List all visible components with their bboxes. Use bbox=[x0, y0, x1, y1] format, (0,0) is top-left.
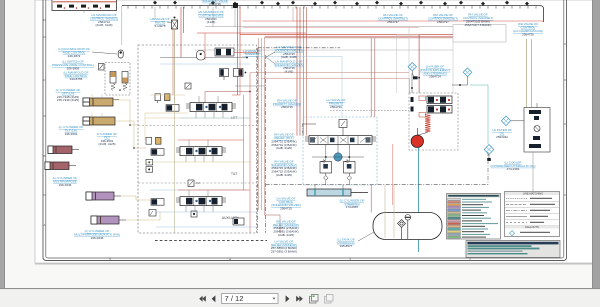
pilot red horizontal y27.5 bbox=[243, 27, 419, 29]
label: cylinder multipurpose bottom bbox=[74, 229, 120, 240]
ride control pressure switch bbox=[99, 64, 105, 71]
legend row text bars bbox=[462, 199, 498, 238]
toolbar prev-page button bbox=[212, 295, 216, 302]
steering check valve left bbox=[320, 160, 332, 181]
label: cylinder multipurpose left bbox=[53, 176, 78, 187]
lift cylinder (RH) bbox=[83, 117, 115, 125]
page bottom shadow bbox=[35, 263, 593, 265]
label: HS manifold of custom valves bbox=[198, 10, 224, 24]
label: manifold of ride control bbox=[63, 70, 88, 81]
return line maroon horizontal y37.4 bbox=[264, 37, 506, 39]
steering piston pump bbox=[427, 106, 452, 114]
label: accumulator of ride control bbox=[58, 47, 90, 58]
signal line gray horizontal y26.6 bbox=[205, 26, 506, 28]
red riser pair x195 bbox=[181, 7, 183, 58]
tilt pilot valve bbox=[151, 149, 164, 156]
pressure red horizontal y36.2 bbox=[265, 35, 506, 37]
maroon feeder y72.5 bbox=[250, 72, 409, 74]
label: right column cluster 2 (solenoid valves) bbox=[271, 159, 297, 177]
label: valve of relief line bottom bbox=[271, 239, 297, 253]
maroon link to relief labels bbox=[264, 215, 280, 233]
label: cylinder of tilt mid bbox=[97, 132, 117, 146]
pump supply red riser x419 bbox=[418, 35, 420, 93]
pump box red inner accents bbox=[419, 96, 426, 117]
pilot supply light blue to steering bbox=[242, 57, 342, 118]
pump wires to diamonds bbox=[411, 73, 467, 93]
steering spool valve bbox=[305, 136, 376, 145]
toolbar next-page button bbox=[286, 295, 290, 302]
wire olive from route valve down bbox=[174, 29, 176, 103]
aux pressure reducing valve bbox=[188, 180, 200, 187]
zone tick right rows bbox=[564, 44, 567, 195]
toolbar field dropdown caret bbox=[273, 298, 276, 300]
solenoid valve on bus bbox=[233, 3, 238, 8]
callout reference box (top right) bbox=[453, 25, 506, 43]
gray grouping outline to pump bbox=[397, 27, 454, 93]
hydraulic tank bbox=[373, 213, 442, 240]
cylinder port ticks bbox=[92, 94, 102, 117]
toolbar next-view icon (disabled) bbox=[325, 295, 334, 304]
zone tick left C bbox=[43, 36, 46, 38]
implement return red line y78.6 bbox=[261, 79, 409, 93]
ride control manifold dashed box bbox=[105, 63, 130, 96]
label: HS valve of route bbox=[150, 17, 169, 28]
right gray strip bbox=[593, 0, 600, 288]
node dot grid left bbox=[119, 89, 135, 149]
HS route valve component bbox=[172, 17, 178, 30]
steering relief cartridge bbox=[339, 120, 347, 136]
label: LH pump of piston bbox=[420, 65, 451, 79]
steering return maroon riser bbox=[371, 38, 375, 213]
control valves inside top-left manifold bbox=[57, 5, 110, 9]
toolbar prev-view icon bbox=[310, 295, 319, 304]
cylinder connection wires tan bbox=[113, 100, 160, 220]
lift pilot valve bbox=[166, 105, 179, 112]
cylinder piston lines bbox=[53, 98, 101, 223]
pump test fitting bbox=[412, 71, 420, 79]
aux check valve bbox=[191, 211, 197, 217]
steering cylinder bbox=[307, 189, 368, 196]
pressure line red horizontal y21 bbox=[243, 20, 544, 22]
label: cylinder of tilt left bbox=[59, 125, 84, 136]
steering box internal wires bbox=[312, 144, 364, 189]
title note block bbox=[466, 241, 560, 258]
teal line cooler branch bbox=[470, 85, 488, 144]
main valve section divider (lift/tilt) bbox=[138, 125, 257, 127]
blue rail aux section bbox=[150, 189, 246, 191]
label: LH manifold of control valves bbox=[90, 13, 119, 27]
bus drop wires bbox=[155, 7, 293, 27]
tilt check valves bbox=[146, 159, 153, 172]
zone letters left border bbox=[43, 18, 45, 227]
solenoid valve block x220 bbox=[220, 69, 229, 81]
pilot light blue lines aux section bbox=[156, 212, 256, 227]
oil filter box bbox=[524, 103, 550, 191]
label: cylinder of lift bbox=[56, 88, 81, 102]
lift relief check bbox=[185, 83, 191, 89]
label: LH manifold of solenoid lower bbox=[274, 59, 304, 73]
line matching table bbox=[505, 192, 560, 237]
label: WH valve of control top right bbox=[513, 22, 543, 36]
aux spool valve bbox=[176, 197, 226, 206]
wire from manifold box down bbox=[83, 11, 85, 14]
label: LH filter of oil bbox=[492, 128, 512, 139]
toolbar last-page button bbox=[296, 296, 303, 302]
pump drive shaft line bbox=[416, 128, 418, 135]
steering metering pump circle bbox=[334, 153, 342, 161]
aux pilot valve bbox=[151, 199, 164, 206]
label leader: tank bbox=[358, 232, 374, 241]
steering supply red riser pair x297 bbox=[297, 7, 300, 136]
pump control spring (red coil) bbox=[425, 115, 431, 133]
label: right column cluster 4 (relief makeup) bbox=[273, 219, 299, 237]
red pilot branches in main box bbox=[173, 28, 250, 233]
steering supply red riser pair x303 bbox=[303, 7, 306, 136]
implement piston pump bbox=[427, 96, 452, 104]
pump inlet fittings bbox=[411, 97, 414, 112]
label: LH valve of priority bbox=[327, 98, 346, 109]
tilt cylinder (maroon upper) bbox=[48, 146, 79, 154]
top bus junction diamonds bbox=[153, 1, 529, 6]
tan rail lift section bbox=[145, 117, 250, 119]
aux pilot lower-left glyph bbox=[149, 210, 156, 217]
lift spool valve bbox=[186, 103, 236, 112]
right strip edge bbox=[592, 0, 593, 288]
dash-dot implement boundary horizontal y48 bbox=[258, 47, 340, 49]
multipurpose cylinder (purple lower) bbox=[91, 216, 126, 224]
steering control valve dashed box bbox=[303, 117, 377, 185]
ride control valve 1 bbox=[110, 72, 116, 91]
aux small valve right bbox=[233, 218, 244, 225]
lift compensator pair bbox=[155, 94, 170, 103]
page sheet bbox=[35, 0, 593, 263]
main valve section divider (tilt/aux) bbox=[138, 182, 257, 184]
left strip edge bbox=[4, 0, 5, 288]
label: DM valve of control bbox=[428, 13, 458, 24]
top manifold bus wire bbox=[122, 6, 544, 22]
toolbar page-number field bbox=[222, 294, 279, 304]
zone tick left B bbox=[43, 115, 46, 117]
pressure line red pair vertical x240 bbox=[237, 7, 240, 95]
label leader: solenoid manifolds bbox=[266, 52, 275, 64]
lift cylinder (LH) bbox=[83, 98, 119, 106]
zone numbers bottom bbox=[109, 257, 471, 261]
filter olive riser pair x527/x532 bbox=[527, 39, 532, 108]
test port diamond (right of pump) bbox=[463, 68, 472, 77]
toolbar first-page button bbox=[199, 296, 206, 302]
legend color swatch rows bbox=[448, 198, 461, 238]
ride control accumulator bbox=[118, 50, 123, 58]
top bus branch ticks bbox=[128, 6, 536, 9]
left gray strip bbox=[0, 0, 4, 288]
tan rail tilt section bbox=[145, 161, 250, 163]
label: right column cluster 3 (control solenoid) bbox=[271, 196, 301, 210]
lift section shuttle bbox=[197, 51, 206, 61]
label: LH manifold of solenoid upper bbox=[274, 45, 304, 59]
wire diamond to filter bbox=[511, 120, 524, 122]
label: cooler condenser bbox=[490, 160, 535, 171]
fan group dashed line y110.5 bbox=[330, 110, 409, 112]
sheet outer border frame bbox=[43, 0, 567, 261]
dash-dot implement boundary vertical x265.5 bbox=[265, 55, 267, 233]
pink riser x296.7 right of main box bbox=[296, 95, 298, 124]
tilt compensator pair bbox=[146, 137, 161, 144]
zone tick left A bbox=[43, 194, 46, 196]
label: LH valve solenoid small bbox=[243, 49, 261, 56]
dash-dot implement boundary vertical x257.5 bbox=[257, 48, 259, 233]
pump drive red circle bbox=[411, 135, 423, 147]
relief line dashed row y240 bbox=[155, 240, 267, 242]
maroon spool feed y91.5 bbox=[205, 91, 251, 103]
label: 2564716 bbox=[202, 0, 228, 6]
tank strainer diamond bbox=[398, 220, 406, 240]
link line y86 bbox=[235, 85, 266, 87]
pressure line red horizontal y34.7 bbox=[240, 34, 506, 36]
label: right column cluster 1 (relief tilt) bbox=[271, 133, 296, 151]
toolbar separator line bbox=[0, 288, 600, 289]
light blue loop lift section bbox=[160, 64, 250, 118]
dash-dot boundary bottom y184.7 bbox=[266, 152, 488, 185]
sheet inner border frame bbox=[46, 0, 564, 258]
steering check valve right bbox=[344, 160, 356, 181]
label: switch of pressure bbox=[52, 60, 94, 71]
tank case drain red riser bbox=[392, 144, 394, 205]
tank return olive risers bbox=[385, 185, 394, 238]
tilt spool valve bbox=[176, 147, 226, 156]
wire olive route valve to lift section bbox=[174, 103, 176, 233]
tilt cylinder (maroon lower) bbox=[45, 162, 76, 170]
return riser maroon group x258-265 bbox=[258, 38, 264, 215]
label leader: route valve bbox=[167, 22, 172, 23]
pump group dashed box bbox=[409, 93, 458, 150]
legend: hydraulic circuit color table bbox=[447, 194, 501, 240]
priority pilot dash-dot drop bbox=[303, 124, 317, 136]
signal line gray horizontal y50 bbox=[195, 49, 453, 51]
aux spool port lines bbox=[186, 190, 213, 212]
cooler diamond bbox=[484, 145, 494, 162]
label: DM valve of control magnet (left) bbox=[378, 13, 408, 24]
main control valve dashed enclosure bbox=[138, 45, 257, 233]
top-right small spool in main box bbox=[215, 48, 258, 56]
lift spool port lines bbox=[196, 96, 223, 118]
label: tank of hydraulic bbox=[337, 237, 355, 248]
solenoid valve block x234 bbox=[234, 69, 247, 77]
suction line teal from pump to tank bbox=[418, 148, 420, 252]
tilt spool port lines bbox=[186, 140, 213, 162]
label: RH valve of control banks bbox=[463, 13, 493, 27]
test port diamond (left of pump) bbox=[408, 63, 416, 71]
tank breather bbox=[405, 215, 411, 240]
ride control valve 2 bbox=[122, 72, 128, 91]
label: RH valve of priority bbox=[273, 98, 301, 109]
label: cylinder of steering bbox=[340, 198, 365, 209]
tan loop lift/tilt bbox=[145, 95, 188, 140]
label leader: accumulator bbox=[92, 52, 117, 54]
toolbar background bbox=[0, 289, 600, 307]
svg-text:7 / 12: 7 / 12 bbox=[225, 294, 244, 303]
bus left drop wire bbox=[121, 6, 123, 45]
filter test diamond bbox=[501, 116, 510, 126]
multipurpose cylinder (purple upper) bbox=[86, 192, 121, 200]
manifold of control valves box (top left) bbox=[52, 0, 117, 11]
pilot line red horizontal y33 (left) bbox=[197, 32, 306, 34]
